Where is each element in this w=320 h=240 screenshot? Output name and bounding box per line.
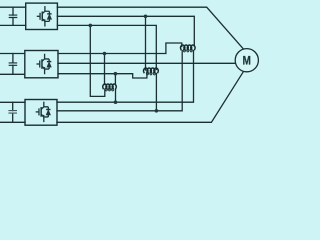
wire: U3 middle output (57, 51, 182, 111)
capacitor C1 (9, 7, 16, 25)
wire: U1 top rail (0, 6, 26, 8)
wire: vertical coil L2 right down to U3 middle line (155, 74, 157, 111)
IGBT Q3 inside U3 (36, 102, 51, 122)
capacitor C3 (9, 102, 16, 122)
wire: U3 top rail (0, 101, 25, 103)
inverter cell box U1 (26, 3, 58, 29)
IGBT Q1 inside U1 (37, 6, 52, 26)
motor M1 circle (235, 49, 258, 72)
wire: U2 top output (58, 43, 182, 54)
wire: U2 top rail (0, 53, 25, 55)
inverter cell box U2 (25, 51, 58, 78)
inductor L2 (144, 68, 159, 73)
inductor L3 (103, 84, 116, 89)
wire: vertical from U1 bottom dot down to coil L3 left (U path) (90, 25, 105, 96)
inverter cell box U3 (25, 100, 57, 126)
wire: vertical from U2 bottom dot down to coil L3 right (114, 74, 116, 85)
wire: U3 top output (57, 51, 194, 103)
wire: U1 bottom rail (0, 24, 26, 26)
wire: U1 bottom output (57, 25, 156, 69)
junction dots (89, 14, 159, 112)
wire: U2 bottom output with step to coil L2 left (58, 74, 147, 79)
wire: vertical coil L3 right down to U3 top line (115, 90, 117, 103)
node: U1 middle line tap (144, 14, 148, 18)
node: U1 bottom line tap (89, 24, 93, 28)
wire: U2 middle output to motor (58, 62, 235, 64)
wire: U1 middle output (57, 16, 194, 46)
svg-text:M: M (243, 55, 251, 67)
node: U3 middle line tap (155, 109, 159, 113)
wire: vertical from U2 top dot down to coil L3 left (104, 54, 106, 85)
wire: vertical from U1 middle dot down to coil L2 left (145, 16, 147, 70)
wire: U2 bottom rail (0, 73, 25, 75)
node: U2 bottom line tap (114, 72, 118, 76)
wire: U1 phase output to motor (top) (57, 7, 243, 49)
wire: U3 bottom phase output to motor (57, 72, 243, 123)
node: U2 top line tap (103, 52, 107, 56)
inductor L1 (181, 45, 195, 50)
capacitor C2 (9, 54, 16, 75)
wire: U3 bottom rail (0, 121, 25, 123)
IGBT Q2 inside U2 (36, 54, 51, 74)
node: U3 top line tap (114, 100, 118, 104)
